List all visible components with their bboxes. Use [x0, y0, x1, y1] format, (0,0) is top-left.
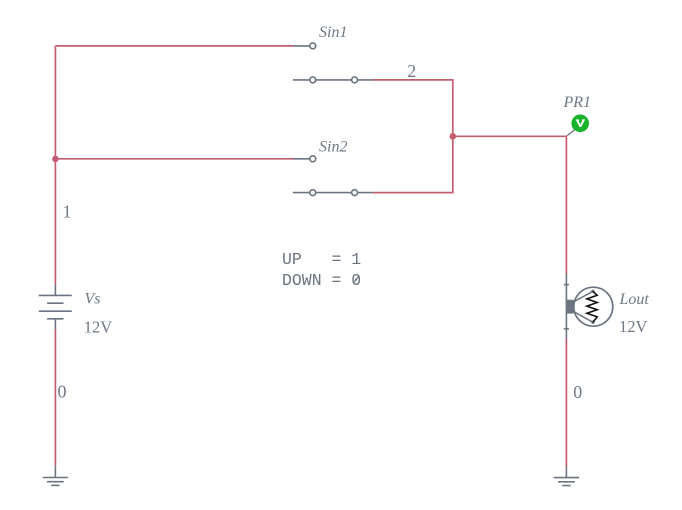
svg-text:PR1: PR1: [563, 94, 592, 111]
svg-text:1: 1: [63, 202, 72, 222]
svg-text:UP = 1: UP = 1: [282, 250, 361, 269]
svg-text:Lout: Lout: [619, 291, 650, 308]
svg-text:12V: 12V: [619, 317, 648, 336]
svg-text:Vs: Vs: [85, 290, 101, 307]
svg-text:DOWN = 0: DOWN = 0: [282, 271, 361, 290]
svg-text:2: 2: [407, 61, 416, 81]
svg-text:0: 0: [58, 381, 67, 401]
svg-text:0: 0: [573, 382, 582, 402]
svg-text:Sin2: Sin2: [319, 138, 347, 155]
svg-text:Sin1: Sin1: [319, 24, 347, 41]
svg-text:12V: 12V: [84, 317, 113, 336]
